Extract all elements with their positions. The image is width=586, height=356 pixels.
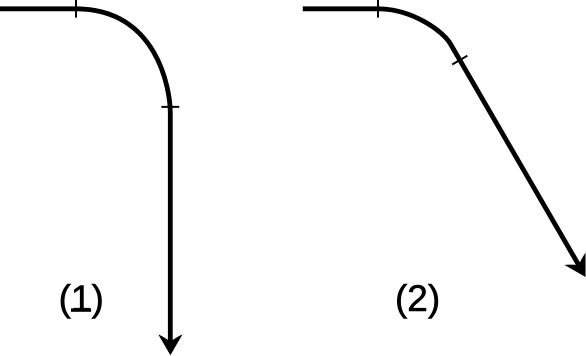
tick: path 2 end of bend (perpendicular to 60-degree line) (452, 56, 467, 65)
tick: path 1 start of bend (75, 0, 77, 18)
svg-text:(2): (2) (395, 278, 440, 319)
wire: path 1 (horizontal then 90-degree bend down) (0, 9, 170, 343)
serif foot of digit 1 in label (1) (71, 308, 91, 311)
arrowhead: path 1 (pointing down) (158, 334, 182, 355)
arrowhead: path 2 (pointing down-right at 60 degrees) (564, 253, 586, 283)
tick: path 1 end of bend (161, 106, 179, 108)
wire: path 2 (horizontal then 60-degree bend down-right) (303, 9, 580, 268)
tick: path 2 start of bend (377, 0, 379, 18)
svg-text:(1): (1) (59, 278, 104, 319)
